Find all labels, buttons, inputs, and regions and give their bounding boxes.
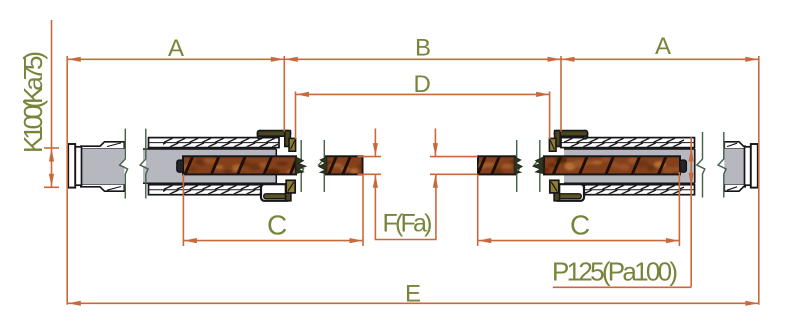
right pocket bottom plaster strip xyxy=(561,185,695,195)
svg-text:A: A xyxy=(655,33,671,60)
svg-text:A: A xyxy=(168,35,184,62)
svg-text:F(Fa): F(Fa) xyxy=(383,210,433,238)
right pocket jamb bottom xyxy=(550,180,584,201)
plaster strip hatching xyxy=(157,138,701,194)
door break right xyxy=(511,140,519,192)
right pocket top plaster strip xyxy=(561,138,695,148)
right wood break tip xyxy=(533,157,543,173)
right door stub xyxy=(478,156,515,174)
K arrows xyxy=(49,149,54,162)
break notches xyxy=(119,158,724,167)
left pocket gray cavity xyxy=(143,149,276,183)
left door rear edge cap xyxy=(177,160,184,172)
D xyxy=(296,93,550,95)
left wall plasterboard top xyxy=(80,142,124,149)
right pocket gray cavity xyxy=(564,149,695,183)
right wall end cap (mirror of left about x=413) xyxy=(745,144,758,188)
svg-text:P125(Pa100): P125(Pa100) xyxy=(552,257,678,287)
door break left xyxy=(296,140,304,192)
svg-text:E: E xyxy=(405,281,421,308)
left wall end cap xyxy=(68,144,81,188)
extension lines xyxy=(51,20,53,187)
arrowheads xyxy=(49,57,758,306)
left pocket top plaster strip xyxy=(149,138,280,148)
K ticks xyxy=(44,147,59,149)
left wall gray body xyxy=(80,148,125,185)
svg-text:C: C xyxy=(267,210,287,241)
P125 leader xyxy=(690,137,692,287)
right door rear edge cap xyxy=(680,160,687,172)
wall break right xyxy=(697,132,705,198)
F ticks xyxy=(358,156,382,158)
left pocket jamb top xyxy=(258,131,296,152)
D arrows xyxy=(296,92,309,97)
top chain xyxy=(67,58,759,60)
right pocket door panel xyxy=(544,156,680,174)
wall break left xyxy=(120,129,128,199)
left pocket bottom plaster strip xyxy=(149,185,280,195)
wood texture + stripes xyxy=(158,155,702,176)
top chain arrows xyxy=(68,57,81,62)
E arrows xyxy=(68,301,81,306)
left pocket door panel xyxy=(183,156,296,174)
F arrows xyxy=(373,143,378,156)
C left / right xyxy=(183,240,363,242)
left wall plasterboard bottom xyxy=(80,185,124,192)
svg-text:B: B xyxy=(415,35,431,62)
svg-text:K100(Ka75): K100(Ka75) xyxy=(18,51,48,153)
F verticals + U bracket xyxy=(374,129,376,157)
right wall plasterboard bottom xyxy=(724,185,746,192)
right pocket jamb top xyxy=(549,131,587,152)
right stub zigzag edge xyxy=(514,157,522,174)
left stub zigzag edge xyxy=(319,157,327,174)
left wood break tip xyxy=(296,157,306,173)
E xyxy=(67,302,759,304)
svg-text:D: D xyxy=(414,71,431,98)
P125 arrows xyxy=(689,149,694,162)
left pocket jamb bottom xyxy=(261,180,295,201)
C arrows xyxy=(184,238,197,243)
right wall plasterboard top xyxy=(724,142,746,149)
left door stub xyxy=(326,156,363,174)
svg-text:C: C xyxy=(570,210,590,241)
right wall gray body xyxy=(724,148,746,185)
